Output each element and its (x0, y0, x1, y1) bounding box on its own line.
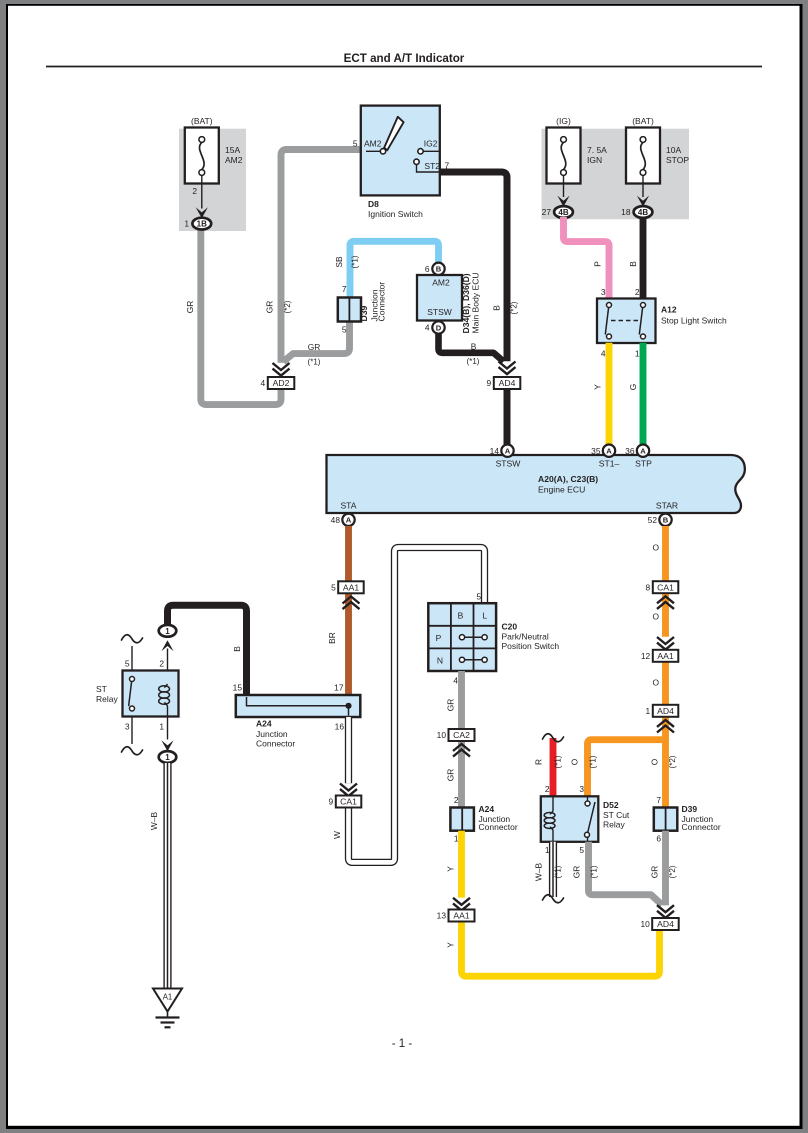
label W (332, 831, 342, 839)
label GR right column (650, 866, 660, 879)
svg-text:O: O (652, 543, 659, 553)
fuse block background (left) (179, 129, 246, 231)
svg-text:B: B (471, 342, 477, 352)
pin 4 label A12 (601, 349, 606, 359)
svg-text:P: P (436, 633, 442, 643)
fuse 10A STOP (626, 128, 660, 184)
connector oval 1 above ST relay (159, 625, 177, 637)
svg-text:IG2: IG2 (424, 138, 438, 148)
label B pink-side (628, 261, 638, 267)
connector oval 1 below ST relay (159, 751, 177, 763)
connector box 12 AA1 (641, 650, 678, 662)
A12 right contact (639, 303, 645, 340)
pin 2 label ST relay (159, 659, 164, 669)
svg-text:A24: A24 (256, 719, 272, 729)
svg-text:9: 9 (329, 797, 334, 807)
ignition switch D8 box (361, 106, 440, 196)
svg-text:Connector: Connector (377, 282, 387, 322)
ECU pin 14 circle A (490, 445, 514, 457)
label Engine ECU (538, 485, 585, 495)
svg-text:Y: Y (593, 384, 603, 390)
svg-text:9: 9 (487, 378, 492, 388)
svg-text:17: 17 (334, 683, 344, 693)
ST cut relay D52 box (541, 796, 599, 842)
wire GR from fuse 1B oval to AD2 (gray) (201, 227, 281, 405)
chevron into AD4 (499, 362, 516, 375)
wire B from fuse STOP to stop light switch (black) (640, 217, 647, 299)
svg-text:CA2: CA2 (453, 730, 470, 740)
label (*2) on thick black (510, 301, 519, 314)
svg-text:6: 6 (656, 834, 661, 844)
fuse 7.5A IGN (547, 128, 581, 184)
svg-text:(*1): (*1) (467, 357, 480, 366)
svg-text:AD4: AD4 (657, 919, 674, 929)
svg-text:GR: GR (185, 301, 195, 314)
label B on thick black (492, 305, 502, 311)
svg-text:STSW: STSW (496, 459, 522, 469)
svg-text:15: 15 (233, 683, 243, 693)
ST relay coil leads (167, 706, 169, 740)
svg-text:4: 4 (261, 378, 266, 388)
label IG2 (424, 138, 438, 148)
svg-text:Y: Y (446, 942, 456, 948)
svg-text:Relay: Relay (96, 694, 118, 704)
C20 P row contact (459, 635, 487, 640)
label B on relay wire (232, 646, 242, 652)
svg-text:O: O (652, 612, 659, 622)
pin 3 label D52 (579, 784, 584, 794)
svg-text:2: 2 (159, 659, 164, 669)
lead fuse STOP to 4B (642, 176, 644, 198)
connector oval 4B (IGN) (542, 206, 573, 218)
svg-text:Relay: Relay (603, 820, 625, 830)
pin 2 label A12 (635, 287, 640, 297)
svg-text:1: 1 (165, 753, 170, 762)
svg-text:(*2): (*2) (668, 865, 677, 878)
svg-text:GR: GR (446, 769, 456, 782)
chevron into AD2 (273, 363, 290, 376)
lead to relay pin 2 (167, 649, 169, 685)
svg-text:5: 5 (125, 659, 130, 669)
label O on branch (570, 758, 580, 765)
pin 4 label C20 (453, 676, 458, 686)
D52 contact leads (587, 796, 589, 842)
label STAR on ECU (656, 501, 678, 511)
lead from fuse to connector 1B (201, 176, 203, 209)
svg-text:GR: GR (265, 301, 275, 314)
svg-text:14: 14 (490, 446, 500, 456)
label STP on ECU (635, 459, 652, 469)
pin 7 label D39 bottom (656, 795, 661, 805)
wire G from A12 to ECU STP (green) (640, 343, 647, 445)
pin 5 label ST relay (125, 659, 130, 669)
label GR below CA2 (446, 769, 456, 782)
svg-text:8: 8 (646, 582, 651, 592)
svg-text:AD4: AD4 (499, 378, 516, 388)
svg-text:D: D (436, 323, 442, 332)
label 7.5A IGN (587, 145, 607, 165)
label (BAT) right fuse (632, 116, 654, 126)
pin 5 label D39 top (342, 325, 347, 335)
arrow into 1B (196, 207, 208, 218)
label AM2 in D8 (364, 138, 382, 148)
svg-text:B: B (663, 516, 669, 525)
svg-text:10: 10 (437, 730, 447, 740)
wire P from fuse IGN to stop light switch (pink) (564, 217, 610, 299)
svg-text:AM2: AM2 (225, 155, 243, 165)
squiggle on red wire (543, 734, 564, 742)
wire R into D52 pin 2 (red) (550, 738, 557, 797)
svg-text:G: G (628, 384, 638, 391)
ground triangle A1 (153, 989, 182, 1012)
D52 coil (544, 811, 555, 830)
label C20 Park/Neutral Position Switch (502, 622, 560, 652)
svg-text:B: B (458, 611, 464, 621)
engine ECU box (327, 455, 745, 513)
label (*1) on SB (351, 255, 360, 268)
svg-text:B: B (232, 646, 242, 652)
connector oval 1B (184, 218, 211, 230)
wire O from ECU STAR down to D39 (orange) (662, 526, 669, 808)
label B in C20 (458, 611, 464, 621)
pin 1 label small A24 (454, 834, 459, 844)
label STSW on ECU (496, 459, 522, 469)
svg-text:Connector: Connector (682, 822, 721, 832)
svg-text:4: 4 (453, 676, 458, 686)
svg-text:AA1: AA1 (343, 582, 359, 592)
chevron below 8 CA1 (657, 596, 674, 609)
label O 3 (652, 678, 659, 688)
ECU pin 36 circle A (625, 445, 649, 457)
label A12 Stop Light Switch (661, 305, 727, 326)
svg-text:7: 7 (656, 795, 661, 805)
label O 1 (652, 543, 659, 553)
svg-text:GR: GR (650, 866, 660, 879)
stop light switch A12 box (597, 299, 656, 344)
svg-text:STOP: STOP (666, 155, 689, 165)
svg-text:B: B (436, 265, 442, 274)
label (*1) on red (554, 755, 563, 768)
junction connector D39 top box (338, 298, 361, 322)
svg-text:16: 16 (335, 722, 345, 732)
label A20(A), C23(B) (538, 474, 598, 484)
svg-text:(*2): (*2) (283, 300, 292, 313)
D52 coil lead top (552, 796, 554, 811)
D52 contact (585, 801, 596, 837)
A12 left contact (605, 303, 611, 340)
label GR above CA2 (446, 699, 456, 712)
pin 2 label small A24 (454, 795, 459, 805)
wire BR from ECU STA to A24 pin 17 (brown) (345, 526, 352, 695)
ground symbol (156, 1012, 180, 1028)
pin 3 label A12 (601, 287, 606, 297)
connector box 8 CA1 (646, 581, 679, 593)
label (*2) on GR wire (283, 300, 292, 313)
label Connector (rotated) (377, 282, 387, 322)
pin 17 label A24 (334, 683, 344, 693)
ECU pin 52 circle B (648, 514, 672, 526)
svg-text:3: 3 (125, 722, 130, 732)
label Junction (rotated) (370, 289, 380, 321)
label L in C20 (482, 611, 487, 621)
svg-text:5: 5 (331, 582, 336, 592)
svg-text:1: 1 (159, 722, 164, 732)
IG2 contact lead (423, 150, 439, 152)
lead fuse IGN to 4B (563, 176, 565, 198)
svg-text:STSW: STSW (427, 307, 452, 317)
main body ECU box AM2/STSW (417, 275, 462, 321)
label (*1) on STSW wire (467, 357, 480, 366)
label ST2 (424, 161, 440, 171)
wire GR (*1) from junction connector D39 pin 5 to AD2 (gray) (283, 320, 349, 362)
svg-text:O: O (570, 758, 580, 765)
label (*1) on W-B (554, 865, 563, 878)
pin 5 lead ST relay (131, 646, 133, 671)
svg-text:GR: GR (446, 699, 456, 712)
pin 6 label D39 bottom (656, 834, 661, 844)
svg-text:10A: 10A (666, 145, 681, 155)
svg-text:48: 48 (331, 515, 341, 525)
svg-text:N: N (437, 656, 443, 666)
svg-text:C20: C20 (502, 622, 518, 632)
ST2 contact circle (414, 159, 419, 164)
connector box 10 CA2 (437, 729, 475, 741)
label A24 Junction Connector (256, 719, 295, 749)
svg-text:Connector: Connector (256, 739, 295, 749)
svg-text:AD2: AD2 (273, 378, 290, 388)
chevron above 12 AA1 (657, 637, 674, 650)
svg-text:D34(B), D36(D): D34(B), D36(D) (461, 273, 471, 333)
svg-text:4: 4 (601, 349, 606, 359)
label D8 Ignition Switch (368, 199, 423, 219)
svg-text:27: 27 (542, 207, 552, 217)
svg-text:A: A (346, 516, 352, 525)
svg-text:O: O (650, 758, 660, 765)
label P in C20 (436, 633, 442, 643)
svg-text:CA1: CA1 (340, 797, 357, 807)
ST relay coil (159, 684, 170, 706)
svg-text:2: 2 (545, 784, 550, 794)
label 10A STOP (666, 145, 689, 165)
wire W from A24 pin 16 looping to C20 pin 5 (white) (349, 548, 485, 863)
svg-text:- 1 -: - 1 - (392, 1038, 413, 1050)
fuse 15A AM2 (185, 128, 219, 184)
svg-text:L: L (482, 611, 487, 621)
wire B thick from D8 ST2 to engine ECU STSW (black) (440, 172, 508, 445)
label (*1) on branch (589, 755, 598, 768)
svg-text:GR: GR (572, 866, 582, 879)
wire B thick from relay connector to A24 pin 15 (black) (168, 605, 247, 695)
svg-text:SB: SB (334, 256, 344, 268)
wire W-B from D52 pin 1 (white-black) (549, 842, 557, 897)
svg-text:STAR: STAR (656, 501, 678, 511)
pin 16 label A24 (335, 722, 345, 732)
junction connector D39 bottom box (654, 808, 678, 831)
pin 3 lead ST relay (131, 717, 133, 745)
label (*2) right (668, 755, 677, 768)
wire SB from D39 junction to main body ECU AM2 (sky blue) (350, 241, 439, 298)
IG2 contact circle (418, 149, 423, 154)
park/neutral position switch C20 box (428, 603, 496, 671)
label STSW in main body ECU (427, 307, 452, 317)
svg-text:A12: A12 (661, 305, 677, 315)
label GR left wire (185, 301, 195, 314)
svg-text:Park/Neutral: Park/Neutral (502, 632, 549, 642)
svg-text:CA1: CA1 (657, 582, 674, 592)
label (BAT) left fuse (191, 116, 213, 126)
svg-text:3: 3 (601, 287, 606, 297)
label D52 ST Cut Relay (603, 800, 630, 830)
svg-text:2: 2 (635, 287, 640, 297)
junction connector A24 small box (450, 808, 474, 831)
svg-text:GR: GR (308, 342, 321, 352)
label B on STSW wire (471, 342, 477, 352)
connector oval 4B (STOP) (621, 206, 652, 218)
label Y above AA1 (446, 866, 456, 872)
chevron into 13 AA1 (453, 898, 470, 911)
svg-text:1: 1 (184, 219, 189, 229)
pin 2 label D52 (545, 784, 550, 794)
label N in C20 (437, 656, 443, 666)
pin 15 label A24 (233, 683, 243, 693)
C20 N row contact (459, 657, 487, 662)
svg-text:(*1): (*1) (589, 755, 598, 768)
pin 3 squiggle (122, 747, 143, 755)
pin 2 of fuse AM2 (192, 186, 197, 196)
connector box 13 AA1 (437, 910, 475, 922)
svg-text:18: 18 (621, 207, 631, 217)
ECU pin 48 circle A (331, 514, 355, 526)
svg-text:A: A (606, 447, 612, 456)
svg-text:ST1–: ST1– (599, 459, 620, 469)
svg-text:35: 35 (591, 446, 601, 456)
svg-text:R: R (534, 759, 544, 765)
svg-text:6: 6 (425, 264, 430, 274)
svg-text:13: 13 (437, 911, 447, 921)
svg-text:(*1): (*1) (554, 755, 563, 768)
svg-text:STP: STP (635, 459, 652, 469)
label O 2 (652, 612, 659, 622)
svg-text:ST: ST (96, 684, 107, 694)
svg-text:Position Switch: Position Switch (502, 641, 560, 651)
pin 4 circle D (425, 321, 445, 333)
label ST1- on ECU (599, 459, 620, 469)
svg-text:(*2): (*2) (510, 301, 519, 314)
label (*1) on GR wire (308, 358, 321, 367)
connector box 4 AD2 (261, 377, 295, 389)
svg-text:Stop Light Switch: Stop Light Switch (661, 316, 727, 326)
svg-text:ST2: ST2 (424, 161, 440, 171)
chevron below 10 CA2 (453, 744, 470, 757)
connector box 9 AD4 (487, 377, 521, 389)
pin 1 label ST relay (159, 722, 164, 732)
svg-text:B: B (492, 305, 502, 311)
pin 5 squiggle (122, 635, 143, 643)
svg-text:7: 7 (342, 284, 347, 294)
label (*1) on GR D52 (590, 865, 599, 878)
svg-text:2: 2 (454, 795, 459, 805)
pin 1 label D52 (545, 845, 550, 855)
label BR (327, 632, 337, 644)
label GR on (*2) wire (265, 301, 275, 314)
svg-text:4: 4 (425, 323, 430, 333)
svg-text:AM2: AM2 (364, 138, 382, 148)
label Y below AA1 (446, 942, 456, 948)
svg-text:36: 36 (625, 446, 635, 456)
pin 7 label D39 top (342, 284, 347, 294)
title underline (46, 66, 762, 68)
pin 1 label A12 (635, 349, 640, 359)
label GR on (*1) wire (308, 342, 321, 352)
label P (593, 261, 603, 267)
svg-text:3: 3 (579, 784, 584, 794)
chevron below 5 AA1 (343, 597, 360, 610)
svg-text:4B: 4B (638, 208, 648, 217)
svg-text:AA1: AA1 (453, 911, 469, 921)
svg-text:Connector: Connector (479, 822, 518, 832)
svg-text:10: 10 (640, 919, 650, 929)
arrow up to oval 1 (161, 640, 173, 651)
svg-text:D52: D52 (603, 800, 619, 810)
svg-text:AA1: AA1 (657, 651, 673, 661)
pin 6 circle B (425, 263, 445, 275)
svg-text:D39: D39 (682, 804, 698, 814)
label ST Relay (96, 684, 118, 704)
ECU pin 35 circle A (591, 445, 615, 457)
svg-text:(*1): (*1) (351, 255, 360, 268)
wire GR from D39 pin 6 to AD4 (gray) (662, 831, 669, 906)
pin 5 label D8 (353, 138, 358, 148)
svg-text:IGN: IGN (587, 155, 602, 165)
svg-text:Y: Y (446, 866, 456, 872)
wire W-B to ground (white-black) (163, 763, 171, 988)
svg-text:P: P (593, 261, 603, 267)
svg-text:(IG): (IG) (556, 116, 571, 126)
svg-text:1: 1 (635, 349, 640, 359)
svg-text:AM2: AM2 (432, 278, 450, 288)
squiggle on W-B wire (543, 895, 564, 903)
wire O branch to D52 pin 3 (orange) (588, 740, 663, 797)
pin 7 label D8 (445, 161, 450, 171)
label W-B on D52 (534, 863, 544, 882)
chevron into 9 CA1 (340, 784, 357, 797)
A24 internal bus (247, 697, 352, 716)
svg-text:A: A (640, 447, 646, 456)
svg-text:Junction: Junction (256, 729, 288, 739)
label Main Body ECU (rotated) (471, 272, 481, 333)
svg-text:Ignition Switch: Ignition Switch (368, 209, 423, 219)
svg-text:(BAT): (BAT) (632, 116, 654, 126)
chevron into 10 AD4 (657, 905, 674, 918)
svg-text:W: W (332, 831, 342, 839)
svg-text:12: 12 (641, 651, 651, 661)
wire B (*1) from main body ECU STSW pin 4 (black) (439, 333, 504, 362)
AM2 contact circle (380, 149, 385, 154)
label STA on ECU (340, 501, 356, 511)
pin 5 label C20 (476, 592, 481, 602)
svg-text:O: O (652, 678, 659, 688)
AM2 contact lead (366, 150, 380, 152)
label Y below A12 (593, 384, 603, 390)
ST relay contact (129, 677, 135, 712)
svg-text:5: 5 (476, 592, 481, 602)
arrow into 4B (IGN) (557, 196, 569, 207)
chevron below 1 AD4 (657, 720, 674, 733)
label D39 Junction Connector (bottom) (682, 804, 721, 832)
svg-text:A20(A), C23(B): A20(A), C23(B) (538, 474, 598, 484)
ST2 contact lead (417, 165, 440, 173)
junction connector A24 box (236, 695, 360, 717)
